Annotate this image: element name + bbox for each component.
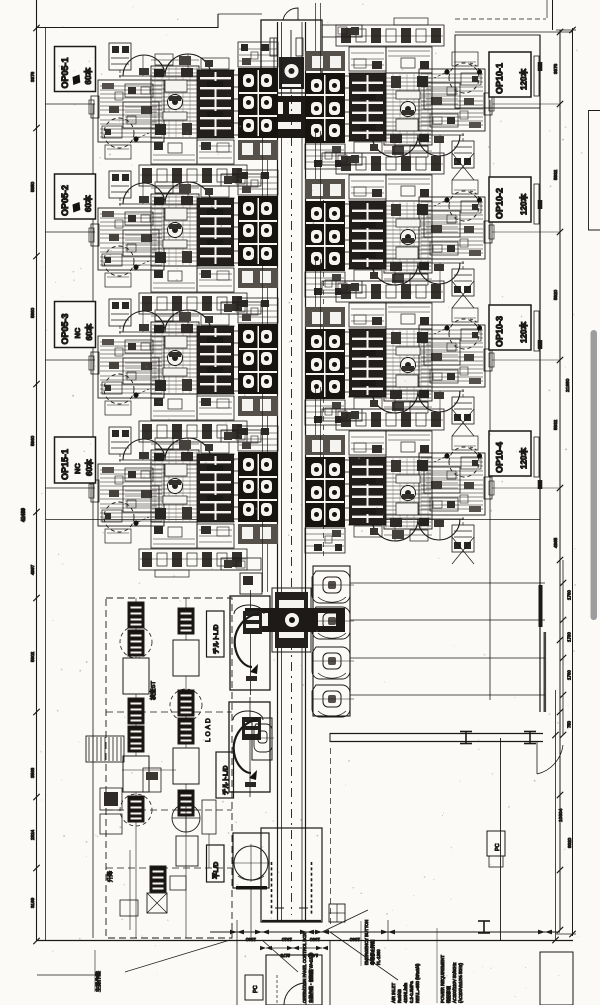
svg-text:3568: 3568 xyxy=(30,767,35,778)
ui scrollbar xyxy=(591,330,598,620)
door swing right wall xyxy=(537,745,563,774)
conveyor lane 2 xyxy=(185,598,187,938)
coil 3 xyxy=(312,647,354,679)
coil stocker box xyxy=(313,566,350,716)
svg-text:AC200/220V 50/60Hz: AC200/220V 50/60Hz xyxy=(452,962,457,1003)
svg-text:5832: 5832 xyxy=(553,419,558,430)
I-beam column 1 xyxy=(460,732,472,744)
svg-text:3169: 3169 xyxy=(30,897,35,908)
svg-text:1760: 1760 xyxy=(567,590,572,600)
svg-text:主操作盤・制御盤 W=1800: 主操作盤・制御盤 W=1800 xyxy=(308,952,315,1003)
svg-text:特記事項: 特記事項 xyxy=(445,985,452,1003)
left main dimension line xyxy=(36,0,38,941)
label OP10-1 xyxy=(489,52,531,97)
right edge fragment box xyxy=(589,111,600,231)
wall panels near coil bay xyxy=(539,585,543,627)
coil 4 xyxy=(312,685,354,717)
main panel leader xyxy=(125,940,230,972)
right vertical dimension 10804 xyxy=(555,690,557,940)
svg-text:5880: 5880 xyxy=(30,307,35,318)
right extension lines xyxy=(492,103,560,105)
conveyor rail head box xyxy=(261,20,322,93)
tilt loader 2 xyxy=(229,702,270,792)
label OP10-3 xyxy=(489,305,531,350)
svg-text:POWER REQUIREMENT: POWER REQUIREMENT xyxy=(440,955,445,1003)
gantry carriage row1 xyxy=(266,96,306,138)
coil feed lines xyxy=(350,582,545,584)
coil dimension line xyxy=(562,560,564,735)
svg-text:1910: 1910 xyxy=(281,937,292,942)
machine cell row 3 left xyxy=(89,298,278,464)
coil 1 xyxy=(312,571,354,603)
conveyor lane 1 xyxy=(135,598,137,938)
machine area boundary verticals xyxy=(92,104,94,938)
svg-text:FL-1360: FL-1360 xyxy=(376,949,381,965)
svg-text:10804: 10804 xyxy=(558,808,564,822)
leader to emergency note xyxy=(322,910,368,932)
svg-text:60本: 60本 xyxy=(83,195,93,212)
tilt L/D label 1 xyxy=(207,611,225,657)
svg-text:120本: 120本 xyxy=(519,448,529,469)
machine cell row 2 left xyxy=(89,170,278,336)
bottom left partial xyxy=(37,974,95,976)
top right dashed guide xyxy=(455,18,546,20)
machine cell row 2 right xyxy=(305,131,494,297)
air text block xyxy=(330,932,398,980)
svg-text:LOAD: LOAD xyxy=(205,716,212,742)
svg-text:PC: PC xyxy=(253,985,259,993)
svg-text:2324: 2324 xyxy=(30,829,35,840)
svg-text:5960: 5960 xyxy=(30,435,35,446)
small boxes above tilt1 xyxy=(240,573,262,594)
svg-text:750: 750 xyxy=(567,720,572,728)
svg-text:OP10-1: OP10-1 xyxy=(495,63,505,94)
svg-text:REF.L.=950 (6Ra3/4): REF.L.=950 (6Ra3/4) xyxy=(415,963,420,1003)
svg-text:(AC200V±10% 50Hz): (AC200V±10% 50Hz) xyxy=(458,962,463,1003)
second chain xyxy=(266,947,322,949)
svg-text:OP10-4: OP10-4 xyxy=(495,442,505,473)
bottom dimension chain xyxy=(210,931,560,933)
flat loader 平L/D xyxy=(233,833,269,888)
dashed line right of rail bottom xyxy=(330,748,332,928)
svg-text:PC: PC xyxy=(495,843,501,851)
svg-text:OP10-2: OP10-2 xyxy=(495,188,505,219)
tilt loader 1 xyxy=(230,596,270,690)
svg-text:5832: 5832 xyxy=(553,169,558,180)
gantry loader crossing xyxy=(272,588,311,652)
PC box bottom xyxy=(245,975,263,1000)
top right verticals xyxy=(552,0,554,30)
svg-text:42489: 42489 xyxy=(21,508,27,522)
label OP05-1 xyxy=(55,47,96,92)
machine cell row 4 right xyxy=(305,387,494,553)
svg-text:チルトL/D: チルトL/D xyxy=(222,765,230,795)
right inner dimension line xyxy=(559,30,561,930)
svg-text:1730: 1730 xyxy=(567,632,572,642)
svg-text:Rc3/4B: Rc3/4B xyxy=(397,989,402,1003)
svg-text:3378: 3378 xyxy=(553,63,558,74)
svg-text:60本: 60本 xyxy=(83,68,93,85)
svg-text:1860: 1860 xyxy=(349,937,360,942)
conveyor rail rails xyxy=(277,22,279,922)
bottom control box xyxy=(266,955,322,1005)
svg-text:非常停止押釦: 非常停止押釦 xyxy=(369,940,376,965)
left secondary chain line xyxy=(45,28,47,941)
svg-text:60本: 60本 xyxy=(84,324,94,341)
平L/D label xyxy=(207,845,225,882)
transfer beam xyxy=(330,733,543,735)
I-beam column 2 xyxy=(524,732,536,744)
svg-text:チルトL/D: チルトL/D xyxy=(212,624,220,654)
svg-text:NC: NC xyxy=(73,463,82,474)
bottom border line xyxy=(37,940,573,942)
rail end box xyxy=(261,828,322,922)
svg-text:420NL/min: 420NL/min xyxy=(403,982,408,1003)
svg-text:120本: 120本 xyxy=(519,69,529,90)
corridor dashed line right xyxy=(323,200,325,560)
machine cell row 3 right xyxy=(305,259,494,425)
rail centerline dashed xyxy=(291,95,293,915)
svg-text:OP05-1: OP05-1 xyxy=(60,57,70,88)
top border line xyxy=(37,14,218,28)
svg-text:21880: 21880 xyxy=(565,378,571,392)
svg-text:60本: 60本 xyxy=(84,459,94,476)
svg-text:3378: 3378 xyxy=(30,71,35,82)
svg-text:検査ST: 検査ST xyxy=(149,681,157,700)
svg-text:NC: NC xyxy=(73,327,82,338)
svg-text:4997: 4997 xyxy=(30,564,35,575)
svg-text:4365: 4365 xyxy=(553,537,558,548)
small x-box xyxy=(147,893,167,913)
svg-text:OP10-3: OP10-3 xyxy=(495,316,505,347)
top right empty box xyxy=(455,35,540,108)
cross box xyxy=(329,904,345,922)
svg-text:120本: 120本 xyxy=(519,194,529,215)
machine cell row 4 left xyxy=(89,426,278,592)
I-beam column 3 xyxy=(478,921,490,933)
svg-text:5820: 5820 xyxy=(553,289,558,300)
coil 2 xyxy=(312,607,354,639)
right vertical line xyxy=(500,738,502,940)
label OP05-3 xyxy=(55,302,96,348)
svg-text:OP15-1: OP15-1 xyxy=(60,449,70,480)
label OP05-2 xyxy=(55,174,96,219)
dashed work area xyxy=(106,598,232,938)
label OP10-2 xyxy=(489,177,531,222)
machine cell row 1 right xyxy=(305,3,494,169)
svg-text:120本: 120本 xyxy=(519,322,529,343)
svg-text:5602: 5602 xyxy=(30,651,35,662)
left row boundary lines xyxy=(46,103,96,105)
bottom right box xyxy=(540,952,573,1005)
svg-text:5850: 5850 xyxy=(30,181,35,192)
label OP10-4 xyxy=(489,431,531,476)
svg-text:1760: 1760 xyxy=(567,670,572,680)
svg-text:1980: 1980 xyxy=(309,937,320,942)
svg-text:OP05-3: OP05-3 xyxy=(60,313,70,344)
right wall line xyxy=(539,35,541,712)
svg-text:0.3-0.9MPa: 0.3-0.9MPa xyxy=(409,981,414,1003)
svg-text:OP05-2: OP05-2 xyxy=(60,185,70,216)
right outer dimension line xyxy=(572,28,574,936)
operation panel text xyxy=(262,940,298,972)
label OP15-1 xyxy=(55,437,96,483)
svg-text:平L/D: 平L/D xyxy=(212,862,220,879)
extra bottom-left details xyxy=(143,768,161,792)
side coil at tilt2 xyxy=(252,718,272,760)
svg-text:8920: 8920 xyxy=(567,837,572,848)
PC box xyxy=(487,831,505,856)
svg-text:1860: 1860 xyxy=(245,937,256,942)
machine cell row 1 left xyxy=(89,42,278,208)
small boxes column xyxy=(100,788,122,810)
wall-side stands xyxy=(534,56,539,96)
stairs block xyxy=(86,736,124,762)
svg-text:升降: 升降 xyxy=(106,870,114,882)
turn unit xyxy=(172,804,200,832)
tilt L/D label 2 xyxy=(216,752,234,798)
